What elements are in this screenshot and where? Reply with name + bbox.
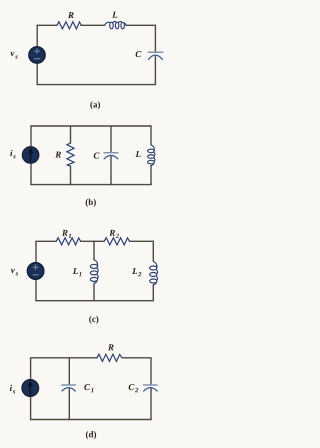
label C2 (d)	[129, 384, 135, 390]
capacitor C (b)	[104, 152, 118, 154]
bottom rail (d)	[31, 389, 151, 420]
wire L to top-right corner and down to capacitor (a)	[127, 25, 156, 52]
top rail left of R (d)	[31, 358, 97, 382]
C1 branch wires (d)	[68, 358, 70, 385]
caption (c)	[89, 316, 98, 324]
capacitor C (a)	[148, 51, 163, 53]
wire capacitor to bottom and bottom rail (a)	[37, 57, 155, 85]
C branch wires (b)	[110, 126, 112, 152]
label L1 (c)	[73, 268, 78, 274]
label R2 (c)	[109, 230, 115, 236]
label is (b)	[10, 150, 12, 156]
resistor R1 (c)	[56, 238, 80, 245]
label C1 (d)	[84, 384, 90, 390]
L1 branch wires (c)	[93, 241, 95, 259]
capacitor C2 (d)	[144, 384, 158, 386]
voltage source vs (a)	[29, 47, 46, 64]
top rail right of R (d)	[123, 358, 151, 385]
label L2 (c)	[132, 268, 137, 274]
label L (b)	[135, 151, 140, 157]
caption (a)	[90, 101, 100, 109]
current source is (b)	[22, 147, 39, 164]
resistor R (a)	[57, 22, 81, 29]
label R (b)	[55, 152, 61, 158]
label C (b)	[94, 153, 100, 159]
bottom rail (b)	[31, 184, 151, 186]
voltage source vs (c)	[27, 263, 44, 280]
label R (a)	[68, 12, 74, 18]
R branch wires (b)	[70, 126, 72, 143]
inductor L2 vertical (c)	[150, 261, 158, 285]
resistor R vertical (b)	[67, 143, 74, 166]
resistor R2 (c)	[104, 238, 129, 245]
left wire upper (b)	[30, 126, 32, 149]
caption (d)	[86, 431, 96, 439]
right wire / L leads (b)	[150, 126, 152, 145]
resistor R (d)	[97, 354, 122, 361]
label is (d)	[10, 385, 12, 391]
label R (d)	[108, 344, 114, 350]
top rail segments (c)	[36, 241, 56, 265]
label R1 (c)	[62, 230, 68, 236]
left wire lower (b)	[30, 161, 32, 185]
inductor L1 vertical (c)	[90, 260, 98, 284]
wire top-left segment (a)	[37, 25, 57, 49]
bottom rail (c)	[36, 277, 153, 301]
label vs (a)	[10, 52, 14, 56]
label L (a)	[112, 12, 117, 18]
wire between R and L (a)	[81, 24, 105, 26]
label vs (c)	[11, 269, 15, 273]
current source is (d)	[22, 380, 39, 397]
caption (b)	[86, 199, 96, 207]
inductor L vertical (b)	[148, 145, 155, 166]
top rail (b)	[31, 125, 151, 127]
label C (a)	[136, 51, 142, 57]
inductor L (a)	[104, 21, 127, 28]
capacitor C1 (d)	[62, 384, 76, 386]
